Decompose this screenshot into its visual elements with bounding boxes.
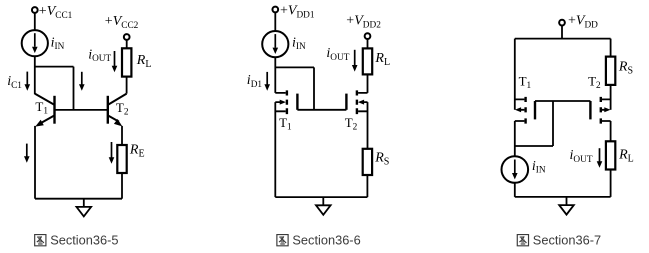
current arrow i_OUT (circuit 1)	[112, 51, 118, 72]
current source i_IN (circuit 3)	[502, 156, 529, 183]
wire bottom rail (circuit 1)	[35, 198, 122, 200]
ground (circuit 1)	[77, 199, 92, 217]
current arrow through RE	[109, 142, 115, 164]
wire RL to T2 collector	[126, 77, 128, 94]
current arrow i_OUT (circuit 2)	[352, 50, 358, 72]
wire gate tie to T1 drain	[515, 101, 553, 146]
wire VCC1 to source	[34, 13, 36, 30]
wire RS to rail	[366, 175, 368, 197]
transistor M T1 (circuit 3)	[515, 97, 535, 156]
wire source to T1 collector	[34, 56, 36, 94]
wire VDD stub	[561, 26, 563, 39]
svg-text:Section36-5: Section36-5	[50, 232, 118, 247]
resistor R_S (circuit 2)	[363, 149, 372, 175]
wire VCC2 to RL	[126, 40, 128, 48]
transistor M T2 (circuit 2)	[346, 74, 367, 148]
resistor R_E	[117, 145, 126, 173]
wire source to rail (circuit 3)	[514, 183, 516, 197]
resistor R_S (circuit 3)	[606, 57, 615, 85]
wire source to T1 drain	[274, 57, 276, 93]
current arrow i_OUT (circuit 3)	[597, 148, 603, 168]
wire top rail	[515, 38, 611, 40]
wire rail to T1 source	[514, 39, 516, 110]
terminal +VDD	[559, 20, 565, 26]
current arrow base branch	[79, 72, 85, 91]
transistor M T1 (circuit 2)	[275, 90, 297, 197]
current source i_IN (circuit 2)	[262, 31, 288, 57]
caption Section36-5	[35, 232, 119, 247]
wire bottom rail (circuit 3)	[515, 196, 611, 198]
wire gate rail (circuit 3)	[535, 100, 590, 102]
resistor R_L (circuit 3)	[606, 141, 615, 169]
wire RE to rail	[121, 173, 123, 199]
wire VDD2 to RL	[367, 39, 369, 48]
terminal +VCC1	[32, 7, 38, 13]
transistor Q T1 (circuit 1)	[35, 94, 55, 127]
svg-text:Section36-7: Section36-7	[533, 232, 601, 247]
wire node to base rail	[35, 67, 74, 110]
terminal +VDD2	[365, 33, 371, 39]
wire gate rail T1-T2	[297, 109, 346, 111]
current source i_IN (circuit 1)	[22, 30, 48, 56]
transistor Q T2 (circuit 1)	[108, 94, 127, 127]
terminal +VDD1	[272, 7, 278, 13]
transistor M T2 (circuit 3)	[590, 97, 610, 141]
terminal +VCC2	[124, 34, 130, 40]
wire base rail T1-T2	[55, 109, 108, 111]
ground (circuit 2)	[316, 197, 331, 215]
ground (circuit 3)	[559, 197, 574, 215]
resistor R_L (circuit 2)	[363, 48, 372, 74]
svg-text:Section36-6: Section36-6	[292, 232, 360, 247]
current arrow i_C1	[25, 72, 31, 91]
wire RS to T2 source	[610, 85, 612, 110]
current arrow T1 emitter	[24, 144, 30, 163]
wire VDD1 to source	[274, 12, 276, 31]
caption Section36-7	[517, 232, 601, 247]
wire T1 emitter down	[34, 126, 36, 199]
wire bottom rail (circuit 2)	[275, 196, 367, 198]
wire rail to RS	[610, 39, 612, 57]
current arrow i_D1	[264, 72, 270, 91]
wire node to gate rail	[275, 67, 314, 109]
caption Section36-6	[277, 232, 361, 247]
wire RL to rail (circuit 3)	[610, 170, 612, 197]
resistor R_L (circuit 1)	[122, 48, 131, 76]
wire T2 emitter to RE	[121, 126, 123, 145]
